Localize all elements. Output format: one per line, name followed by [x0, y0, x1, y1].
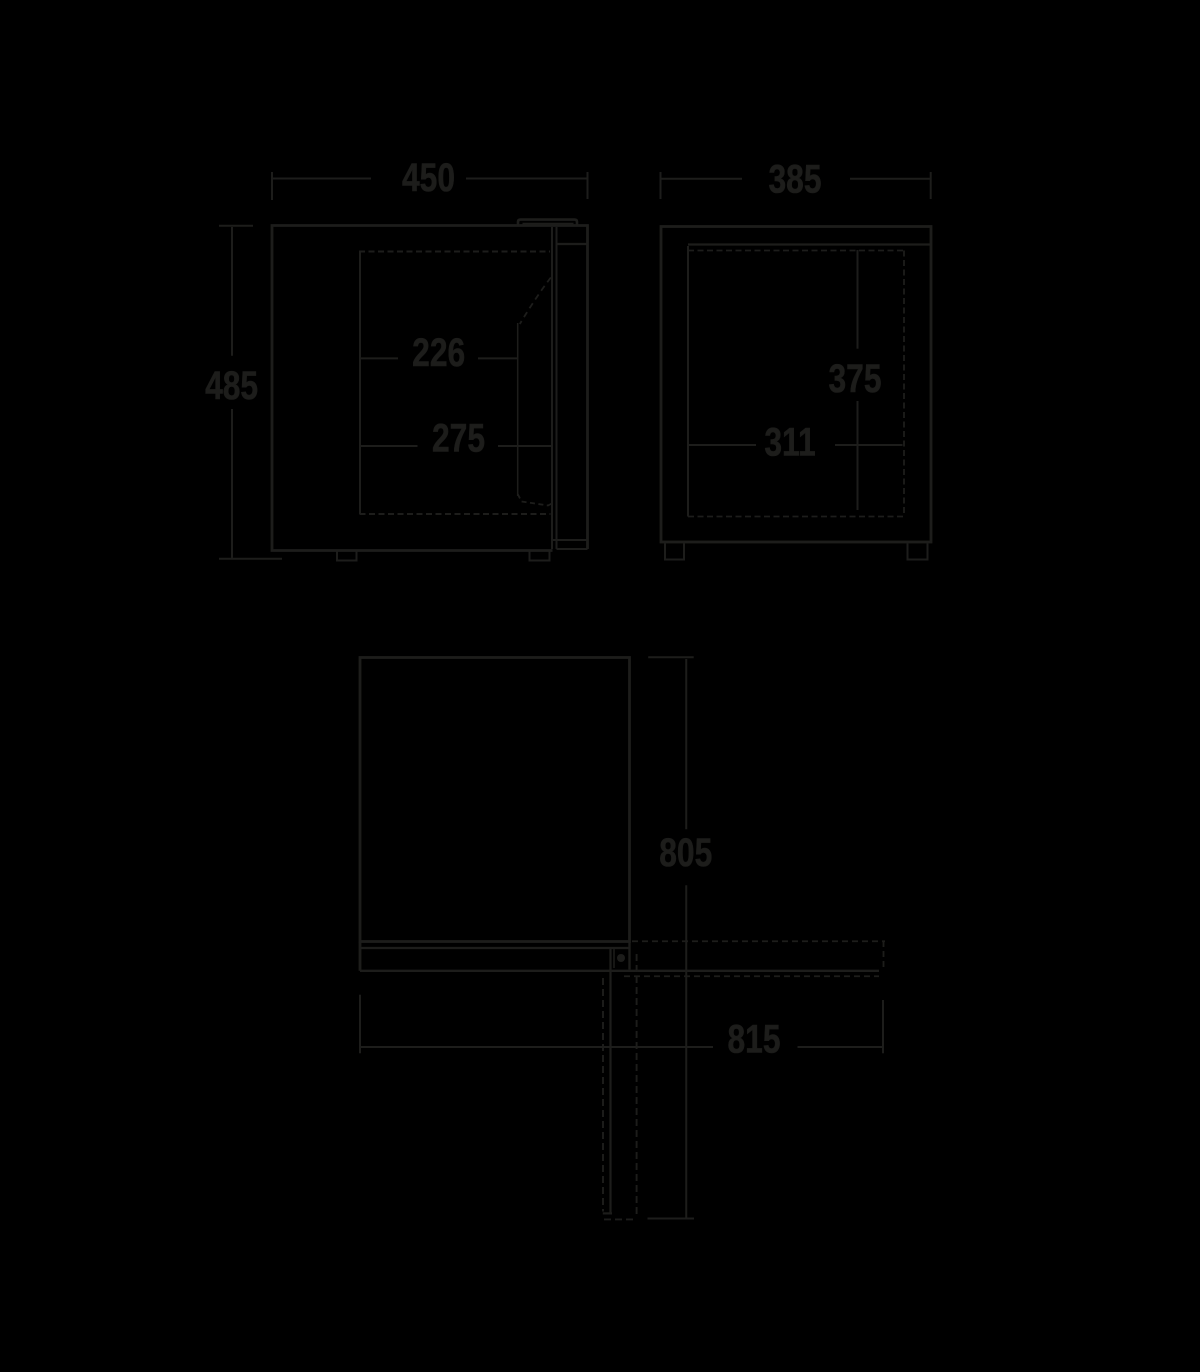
dim 385 right end tick: [930, 172, 932, 199]
slab bottom edge: [360, 970, 879, 972]
dim 805 bottom end tick: [648, 1218, 695, 1220]
hidden leg right edge (dashed): [636, 954, 638, 1218]
front view right foot: [530, 551, 550, 561]
dim 450 left end tick: [271, 172, 273, 200]
dim 805 line top segment: [685, 659, 687, 829]
side view hidden front inner edge (dashed): [903, 251, 905, 517]
dim 311 label: [764, 420, 815, 464]
side view left foot: [665, 543, 684, 559]
side panel bottom block lower line: [557, 548, 588, 550]
side panel bottom block upper line: [552, 539, 588, 541]
side panel divider left line: [551, 227, 553, 549]
hidden top edge right of cabinet (dashed): [632, 940, 885, 942]
dim 375 label: [828, 357, 881, 401]
dim 485 line top segment: [231, 227, 233, 356]
dim 815 line left segment: [360, 1046, 713, 1048]
dim 485 bottom end tick: [219, 558, 282, 560]
svg-text:815: 815: [727, 1017, 780, 1061]
side view inner back edge: [687, 246, 689, 517]
niche left edge: [359, 252, 361, 515]
dim 375 line top segment: [857, 250, 859, 349]
hidden diagonal brace (dashed): [520, 278, 551, 325]
dim 815 left end tick: [359, 995, 361, 1054]
dim 275 right tick: [498, 445, 553, 447]
dim 226 right tick: [478, 357, 517, 359]
dim 450 right end tick: [587, 172, 589, 199]
svg-text:226: 226: [412, 331, 465, 375]
side view hidden niche bottom (dashed): [688, 516, 904, 518]
dim 815 line right segment: [798, 1046, 884, 1048]
niche inner right thin line: [517, 323, 519, 496]
hidden slab right end cap (dashed): [883, 941, 885, 970]
dim 311 line left segment: [688, 444, 757, 446]
assembled cabinet left edge extension to slab bottom: [359, 942, 362, 971]
dim 450 line right segment: [466, 178, 588, 180]
leg foot solid corner: [603, 1212, 612, 1214]
dim 226 left tick: [360, 357, 398, 359]
assembled cabinet right edge extension to slab bottom: [628, 942, 630, 970]
hidden bottom step (dashed): [518, 494, 553, 506]
svg-text:385: 385: [768, 157, 821, 201]
side view right foot: [908, 543, 928, 559]
svg-text:311: 311: [764, 420, 815, 464]
dim 311 line right segment: [835, 444, 903, 446]
dim 815 right end tick: [882, 1000, 884, 1053]
svg-text:375: 375: [828, 357, 881, 401]
dim 485 line bottom segment: [231, 409, 233, 558]
niche hidden bottom edge (dashed): [360, 513, 551, 515]
dim 385 line left segment: [661, 178, 743, 180]
dim 805 line bottom segment: [685, 885, 687, 1218]
hidden leg bottom (dashed): [604, 1218, 636, 1220]
dim 485 top end tick: [219, 225, 253, 227]
dim 275 left tick: [360, 445, 418, 447]
dim 805 label: [659, 831, 712, 875]
dim 385 label: [768, 157, 821, 201]
dim 450 line left segment: [272, 178, 371, 180]
side panel top block bottom line: [557, 243, 588, 245]
dim 450 label: [402, 156, 455, 200]
side panel divider right line: [556, 227, 558, 549]
dim 805 top end tick: [648, 656, 694, 658]
niche hidden top edge (dashed): [359, 251, 550, 253]
dim 375 line bottom segment: [857, 401, 859, 510]
dim 485 label: [205, 364, 258, 408]
side view outer rect: [661, 227, 931, 543]
dim 385 left end tick: [660, 172, 662, 199]
svg-text:805: 805: [659, 831, 712, 875]
svg-text:450: 450: [402, 156, 455, 200]
front view top tab outline: [518, 220, 577, 226]
side view top panel underside line: [688, 243, 930, 245]
leg tenon short line in slab: [613, 949, 615, 968]
svg-text:485: 485: [205, 364, 258, 408]
svg-text:275: 275: [432, 416, 485, 460]
assembled cabinet rect: [360, 658, 630, 942]
hidden leg left edge (dashed): [602, 978, 604, 1212]
front view top tab inner line: [523, 223, 574, 225]
slab top edge under cabinet: [360, 947, 630, 949]
side view hidden line under top (dashed): [688, 250, 903, 252]
dim 226 label: [412, 331, 465, 375]
leg front edge solid: [609, 949, 611, 1214]
dim 385 line right segment: [850, 178, 931, 180]
cam screw symbol: [617, 954, 625, 962]
front view left foot: [337, 551, 357, 561]
dim 815 label: [727, 1017, 780, 1061]
hidden lower edge right of cabinet (dashed): [624, 975, 879, 977]
dim 275 label: [432, 416, 485, 460]
front view outer rect: [272, 226, 588, 551]
